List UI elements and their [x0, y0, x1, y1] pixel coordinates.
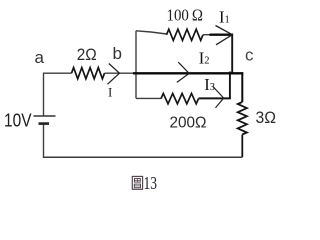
- arrow current I2 head: [177, 62, 189, 82]
- svg-text:I: I: [108, 85, 112, 100]
- svg-text:13: 13: [144, 173, 158, 193]
- resistor R 3ohm vertical zigzag: [238, 102, 247, 135]
- wire: c corner down to 3-ohm: [241, 72, 243, 102]
- svg-text:100 Ω: 100 Ω: [167, 6, 204, 25]
- bottom wire: [44, 156, 243, 158]
- caption glyph tu (CJK box drawing): [132, 176, 142, 189]
- svg-text:a: a: [35, 48, 45, 67]
- battery V1 short plate: [39, 122, 50, 125]
- svg-text:3Ω: 3Ω: [256, 108, 277, 127]
- wire: battery bottom to bottom-left corner: [43, 124, 45, 158]
- arrow current I1 head: [216, 26, 233, 45]
- wire: 2-ohm to parallel box left edge: [105, 72, 138, 74]
- wire: bottom branch left segment: [136, 97, 161, 99]
- wire: 3-ohm down to bottom right corner: [241, 135, 243, 158]
- svg-text:10V: 10V: [4, 111, 32, 131]
- middle wire b to c (thick): [133, 72, 243, 74]
- arrow current I3 head: [213, 86, 224, 107]
- resistor R 200ohm zigzag: [161, 93, 199, 103]
- wire: top branch left segment: [136, 31, 167, 34]
- svg-text:2Ω: 2Ω: [77, 45, 97, 64]
- svg-text:c: c: [245, 46, 254, 65]
- parallel box right edge upper: [231, 34, 233, 74]
- svg-text:200Ω: 200Ω: [170, 114, 207, 131]
- svg-text:b: b: [113, 44, 122, 63]
- battery V1 long plate: [34, 115, 56, 117]
- parallel box right edge lower: [229, 72, 231, 99]
- wire: top branch right thick shaft: [203, 34, 210, 36]
- wire: top-left corner a to 2-ohm resistor: [44, 73, 72, 116]
- parallel box left edge: [135, 31, 137, 99]
- arrow current I: [108, 64, 120, 85]
- resistor R 2ohm zigzag: [72, 68, 105, 79]
- wire: bottom branch right segment: [199, 97, 231, 99]
- resistor R 100ohm zigzag: [167, 29, 204, 40]
